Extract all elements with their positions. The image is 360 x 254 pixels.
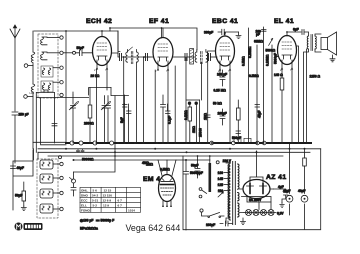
resistor right column: [303, 158, 307, 166]
IF transformer 1: [112, 47, 154, 64]
svg-text:40μF: 40μF: [298, 189, 305, 193]
wire top bus left: [34, 30, 118, 32]
tuning gang section 3: [93, 141, 97, 145]
bottom coil unit 4: [40, 204, 59, 213]
svg-text:EBC 41: EBC 41: [212, 18, 238, 25]
wire fuse to lamps: [240, 197, 271, 213]
capacitor 50uF mains: [195, 160, 200, 178]
svg-text:40μF: 40μF: [17, 166, 24, 170]
capacitor pair across rails: [77, 149, 85, 153]
svg-text:EF 41: EF 41: [149, 18, 169, 25]
svg-text:250 pF: 250 pF: [19, 113, 29, 117]
fuse 8A 250V: [247, 197, 271, 203]
wire EBC41 area: [208, 51, 216, 143]
svg-text:6μF: 6μF: [293, 28, 299, 32]
capacitor 5000pF EM4: [184, 160, 189, 230]
voltage tap 125: [224, 184, 230, 186]
table row labels: [81, 189, 135, 213]
pot arrow: [269, 38, 273, 45]
svg-text:5 6: 5 6: [93, 189, 98, 193]
junction dots bus: [65, 27, 306, 161]
svg-text:0,5MΩ: 0,5MΩ: [160, 168, 170, 172]
capacitor 6uF: [287, 30, 308, 37]
wire vertical x66: [65, 31, 67, 143]
svg-text:MPaΩkΩΩa: MPaΩkΩΩa: [80, 227, 98, 231]
antenna: [10, 25, 20, 111]
switch contact row2: [60, 51, 63, 54]
svg-text:1MΩ: 1MΩ: [204, 113, 208, 120]
svg-text:125: 125: [218, 183, 224, 187]
svg-text:6 7: 6 7: [118, 204, 123, 208]
svg-text:5000pF: 5000pF: [274, 53, 278, 64]
capacitor pair mid: [106, 96, 111, 143]
resistor 140 Ohm cathode: [280, 78, 284, 90]
capacitor on EBC grid line: [206, 115, 211, 117]
voltage tap 145: [224, 178, 230, 180]
switch contact row1: [60, 36, 63, 39]
capacitor on x263.5: [262, 29, 267, 31]
svg-text:0.5MΩ: 0.5MΩ: [242, 56, 246, 66]
tube ECH42: [93, 31, 112, 70]
svg-text:50μF: 50μF: [15, 194, 22, 198]
contact 4: [60, 207, 63, 210]
coil unit row4: [41, 81, 59, 92]
ground left: [21, 206, 26, 211]
ground transformer: [241, 218, 246, 225]
capacitor 100uF a: [220, 70, 225, 86]
svg-text:ECC: ECC: [81, 199, 88, 203]
svg-text:6,3V: 6,3V: [277, 212, 284, 216]
coil unit row3: [41, 66, 59, 77]
svg-text:4μF: 4μF: [278, 185, 284, 189]
tube EL41: [278, 36, 297, 70]
capacitor antenna series 250pF: [12, 112, 18, 163]
wire x118 drop: [117, 31, 119, 54]
value table: [80, 187, 141, 212]
svg-text:500μF: 500μF: [232, 136, 241, 140]
voltage tap 220V: [223, 161, 230, 163]
wire AZ41 B+: [256, 151, 258, 152]
power transformer: [226, 162, 239, 225]
svg-text:DNO: DNO: [81, 194, 88, 198]
svg-text:50pF: 50pF: [77, 46, 84, 50]
wire grid row to tube: [63, 52, 72, 54]
tube pin numbers: [94, 69, 292, 73]
svg-text:1014: 1014: [128, 209, 135, 213]
voltage tap 160: [224, 172, 230, 174]
wire x199.6: [199, 100, 201, 143]
tuning gang section 1: [70, 141, 74, 145]
band switch box (dashed): [38, 34, 58, 98]
trimmer capacitor 2: [101, 96, 111, 143]
svg-text:100 μF: 100 μF: [217, 73, 227, 77]
svg-text:20 kΩ: 20 kΩ: [91, 74, 100, 78]
tube AZ41: [240, 151, 274, 199]
terminal circle left b: [24, 64, 28, 68]
switch contacts mains: [199, 188, 207, 198]
svg-text:50000Ω: 50000Ω: [82, 158, 94, 162]
svg-text:54-2: 54-2: [92, 194, 98, 198]
contact 3: [60, 191, 63, 194]
svg-text:0.1μF: 0.1μF: [168, 116, 172, 124]
pickup connector arrow: [70, 178, 73, 181]
svg-text:100μF: 100μF: [218, 112, 227, 116]
svg-text:1250 Ω: 1250 Ω: [310, 75, 321, 79]
svg-text:140 Ω: 140 Ω: [274, 73, 283, 77]
wire detector row: [187, 99, 200, 101]
capacitor 100uF mains: [220, 221, 232, 226]
capacitor 300pF top: [218, 29, 241, 38]
wire EF41 legs down: [155, 70, 168, 143]
svg-text:5μF: 5μF: [120, 117, 124, 123]
filter cap 40uF b: [301, 195, 308, 202]
voltage tap 110: [224, 190, 230, 192]
wire osc drop: [41, 98, 66, 145]
svg-text:5000Ω: 5000Ω: [266, 49, 276, 53]
wire left col down: [13, 150, 33, 210]
coil unit row1: [41, 37, 60, 45]
terminal circle left: [24, 95, 28, 99]
svg-text:13 150: 13 150: [103, 194, 113, 198]
svg-text:300pF: 300pF: [204, 31, 213, 35]
capacitor 50pF: [76, 50, 93, 56]
terminal on rail: [59, 156, 62, 159]
switch contact row5: [60, 93, 63, 96]
svg-text:0.1MΩ: 0.1MΩ: [184, 110, 188, 120]
capacitor 500uF: [236, 131, 241, 134]
wire detector: [196, 104, 198, 143]
capacitor 4uF: [274, 189, 289, 208]
svg-text:2600Ω: 2600Ω: [84, 122, 94, 126]
tube EM4: [159, 175, 176, 207]
svg-text:5-2: 5-2: [93, 204, 98, 208]
svg-text:ECH 42: ECH 42: [86, 18, 112, 25]
svg-text:100μF: 100μF: [206, 223, 215, 227]
svg-text:4MΩ: 4MΩ: [142, 161, 149, 165]
capacitor 40uF left: [11, 166, 16, 169]
wire over ECH42: [89, 69, 111, 95]
svg-text:220 V: 220 V: [223, 159, 232, 163]
capacitor 45uF: [255, 105, 260, 108]
contact 2: [60, 176, 63, 179]
wire IF1 feeds down: [124, 57, 144, 143]
svg-text:25000: 25000: [199, 128, 203, 137]
svg-text:pF: pF: [256, 33, 260, 37]
right side verticals: [290, 143, 305, 194]
resistor left: [22, 182, 26, 206]
svg-text:50 kΩ: 50 kΩ: [213, 102, 222, 106]
svg-text:EM 4: EM 4: [143, 176, 160, 183]
svg-text:0.25 MΩ: 0.25 MΩ: [214, 89, 227, 93]
resistor 0.1MOhm vertical: [188, 104, 192, 143]
tube EF41: [153, 28, 173, 71]
wire ECH42 legs down: [90, 88, 96, 144]
dial lamps: [244, 210, 276, 216]
svg-text:12 15: 12 15: [104, 189, 112, 193]
svg-text:145: 145: [218, 177, 224, 181]
switch contact row4: [60, 81, 63, 84]
wire notch: [44, 90, 48, 92]
tap selector arrow: [218, 192, 224, 197]
bottom coil unit 2: [40, 174, 59, 183]
wire AVC x115: [114, 96, 116, 156]
svg-text:ELL: ELL: [81, 204, 87, 208]
resistor 50k vertical: [237, 100, 241, 143]
tuning gang section 2: [79, 141, 83, 145]
power switch: [200, 209, 224, 218]
speaker: [321, 32, 337, 62]
svg-text:EL 41: EL 41: [274, 18, 294, 25]
svg-text:5000μμF: 5000μμF: [190, 171, 203, 175]
pickup connector: [71, 172, 76, 196]
wire IF2 down: [186, 57, 201, 143]
wire terminal to coil: [27, 96, 33, 98]
switch contact row3: [60, 66, 63, 69]
bus line 3: [38, 151, 310, 153]
diode load terminals: [188, 102, 191, 105]
svg-text:12 9: 12 9: [103, 204, 109, 208]
wire EL41 legs down: [282, 69, 292, 143]
svg-text:5-21: 5-21: [92, 199, 98, 203]
svg-text:FONO: FONO: [81, 209, 91, 213]
bus line 2: [38, 148, 321, 150]
bus line 4: [48, 155, 283, 157]
tuning gang section 4: [110, 141, 114, 145]
contact 1: [60, 162, 63, 165]
node dot: [73, 51, 76, 54]
svg-text:0.19MΩ: 0.19MΩ: [266, 54, 270, 66]
filter cap 40uF a: [286, 195, 293, 202]
IF transformer 2: [173, 49, 217, 65]
svg-text:ONL.: ONL.: [81, 189, 89, 193]
logo badge: [15, 223, 43, 231]
bus terminal circles right: [210, 141, 214, 145]
capacitor pair under EF41: [161, 95, 171, 143]
coil L1 antenna: [31, 52, 35, 84]
wire mid right: [248, 27, 272, 143]
wire EL41 screen down: [297, 46, 299, 143]
wire EBC41 legs: [220, 70, 230, 143]
capacitor on osc line: [52, 124, 57, 126]
svg-text:6 7: 6 7: [118, 199, 123, 203]
wires to bank: [34, 149, 39, 160]
svg-text:0.5MΩ: 0.5MΩ: [249, 74, 259, 78]
wire terminal b: [28, 65, 33, 67]
wire osc section: [36, 92, 88, 152]
svg-text:8A 250V: 8A 250V: [249, 198, 262, 202]
svg-text:45μF: 45μF: [258, 111, 262, 118]
tube EBC41: [216, 36, 235, 71]
svg-text:Vega 642 644: Vega 642 644: [126, 223, 181, 233]
wire bus thin left: [33, 141, 66, 144]
capacitor pair under IF1: [123, 95, 132, 114]
bottom coil unit 3: [40, 189, 59, 198]
wire OT return down: [304, 49, 309, 143]
main heavy bus: [66, 142, 311, 144]
capacitor 100uF b: [220, 109, 225, 125]
svg-text:⨁100 pF ≡≡ 50000p F: ⨁100 pF ≡≡ 50000p F: [80, 218, 114, 222]
wire to IF1: [111, 31, 129, 96]
bus line 5: [74, 159, 210, 161]
wire screen EF41: [174, 66, 176, 143]
coil unit row2: [41, 52, 60, 60]
svg-text:AZ 41: AZ 41: [266, 174, 287, 181]
wire mains bar up: [198, 156, 210, 163]
coil L2 antenna: [31, 84, 35, 149]
svg-text:12 6 9: 12 6 9: [103, 199, 112, 203]
mains bar: [209, 163, 212, 192]
wire x73 from switch: [72, 92, 74, 95]
component boxes above bus: [234, 138, 241, 142]
svg-text:160: 160: [218, 171, 224, 175]
wire pickup top: [74, 156, 116, 172]
wire EM4 feeds: [158, 160, 176, 176]
bottom bus: [183, 156, 321, 230]
bottom switch bank box: [37, 159, 58, 218]
resistor under ECH42: [88, 105, 92, 118]
bottom coil unit 1: [40, 160, 59, 169]
svg-text:68MΩ: 68MΩ: [254, 40, 263, 44]
wire antenna coil lead: [32, 31, 34, 52]
svg-text:50μF: 50μF: [191, 164, 198, 168]
output transformer: [307, 32, 322, 143]
right frame: [290, 149, 321, 229]
wire top inter-tube: [110, 28, 197, 50]
svg-text:1MΩ: 1MΩ: [192, 126, 196, 133]
trimmer capacitor osc: [69, 95, 79, 143]
wire IF1 caps down: [125, 104, 129, 144]
